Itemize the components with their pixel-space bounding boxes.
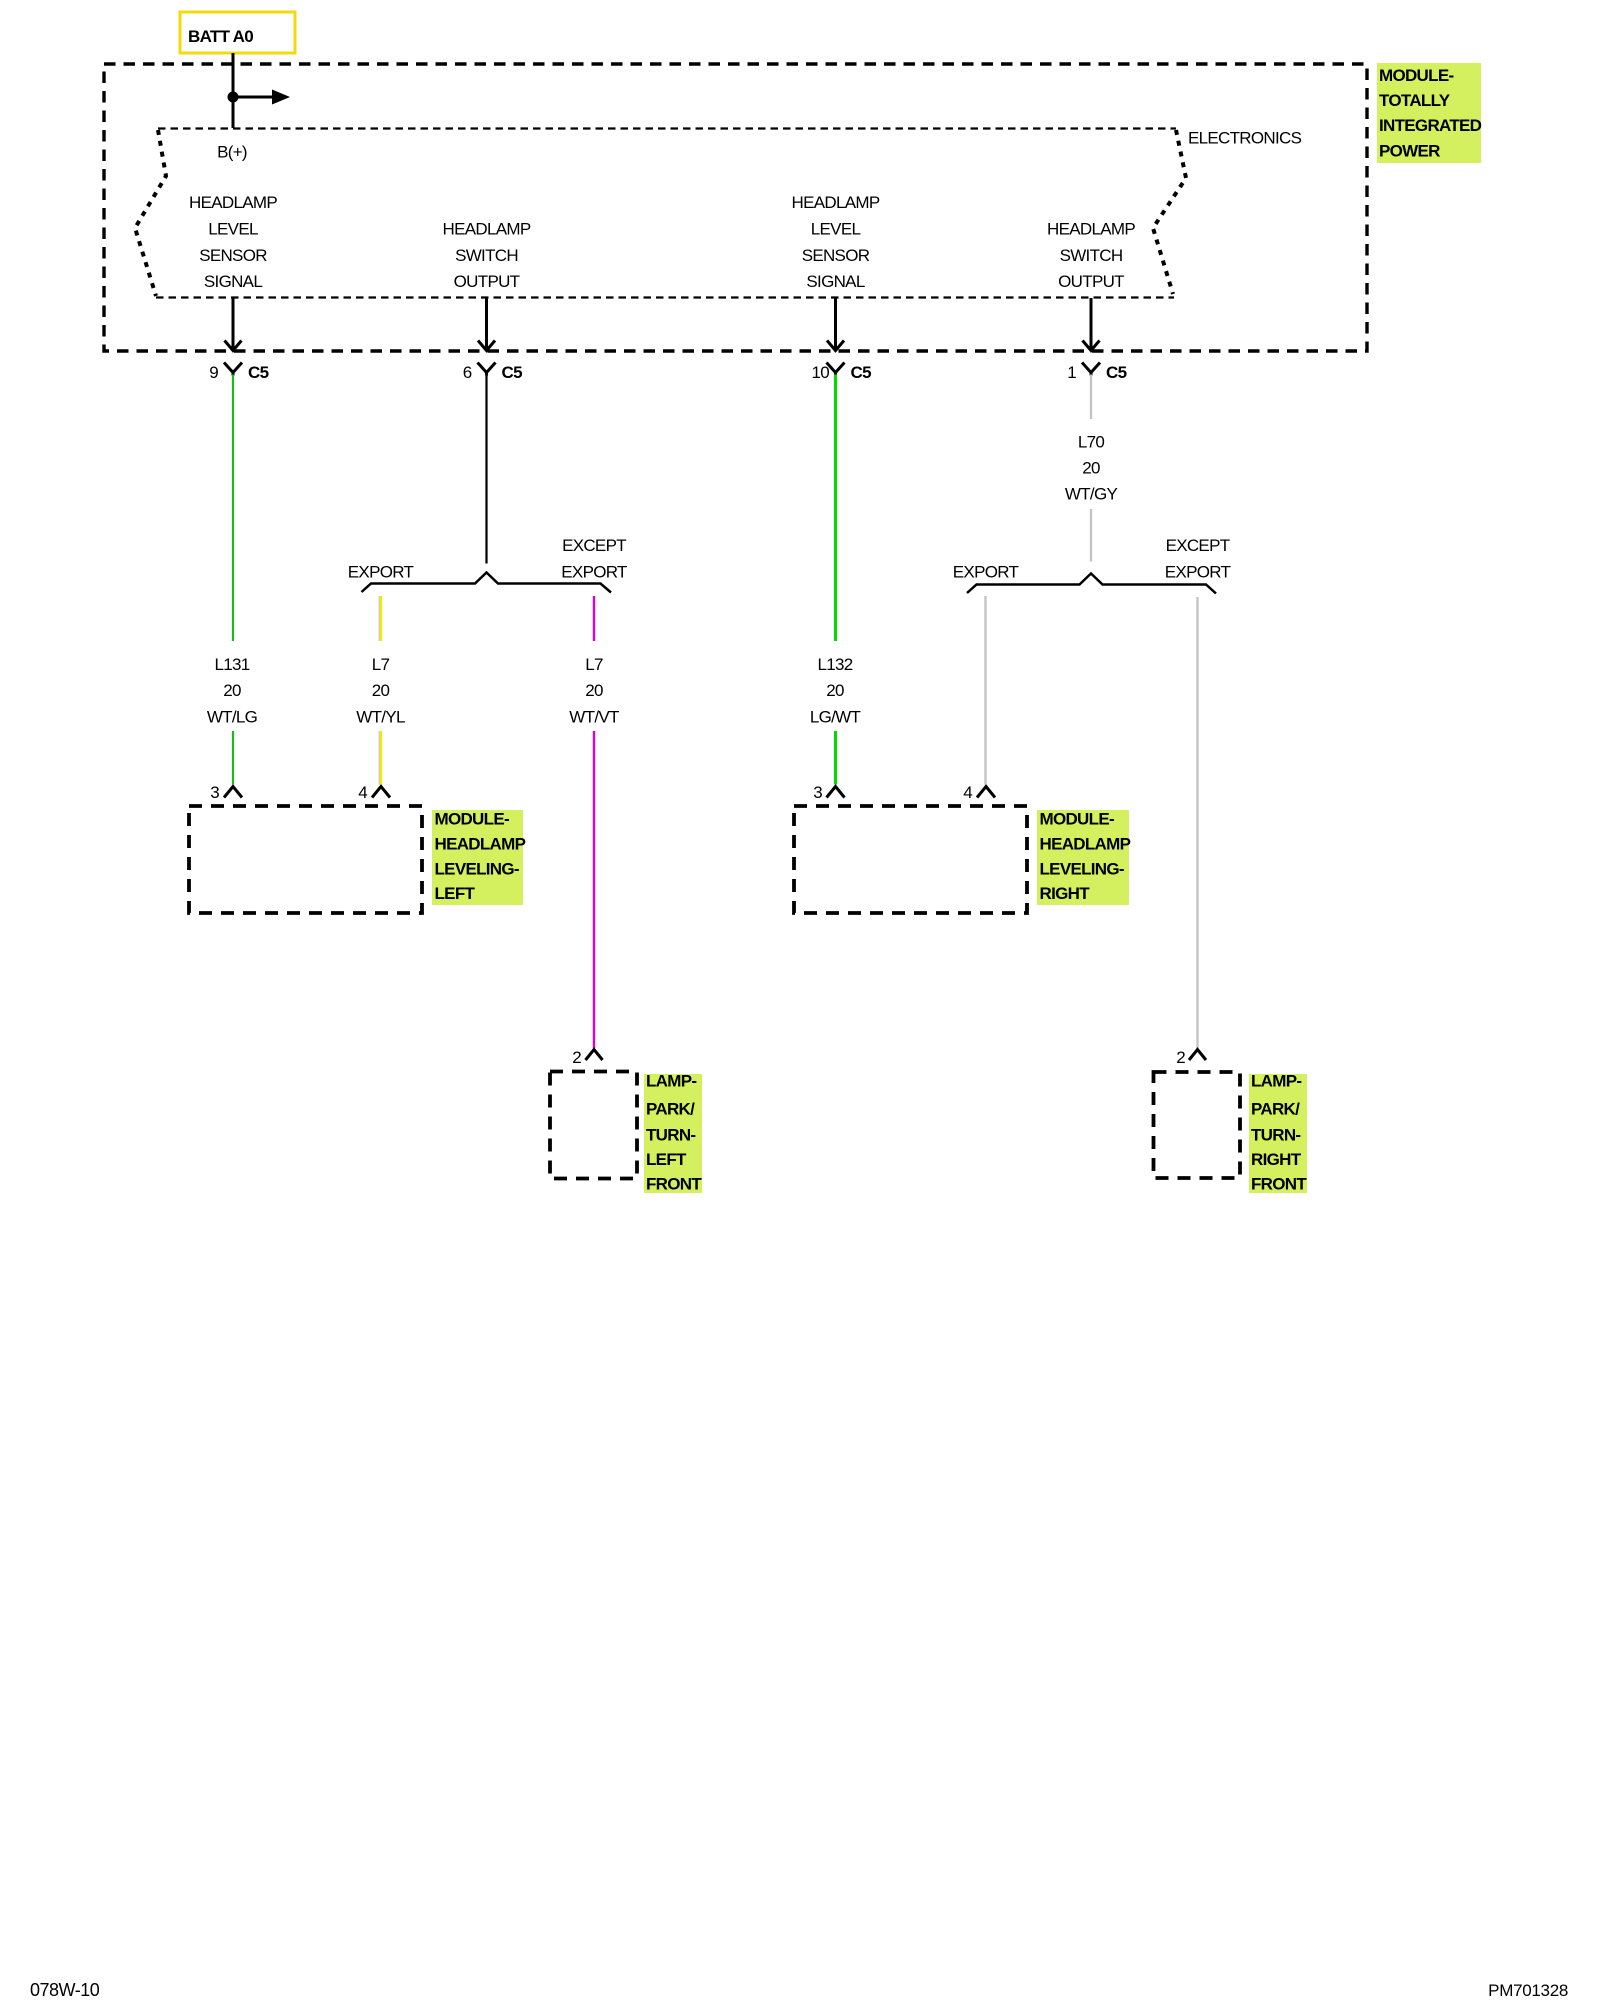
svg-text:HEADLAMP: HEADLAMP <box>435 835 526 854</box>
wire L7 20 WT/VT (violet, lower segment to lamp) <box>593 731 595 1048</box>
svg-text:WT/YL: WT/YL <box>356 708 405 727</box>
svg-text:TOTALLY: TOTALLY <box>1379 91 1451 110</box>
module box MODULE-HEADLAMP LEVELING-LEFT <box>189 806 422 913</box>
svg-text:OUTPUT: OUTPUT <box>1058 272 1124 291</box>
svg-text:TURN-: TURN- <box>646 1126 695 1145</box>
svg-text:LEFT: LEFT <box>646 1150 687 1169</box>
output arrow pin 1 <box>1083 298 1100 351</box>
connector pin 1 C5 <box>1067 363 1126 383</box>
pin label HEADLAMP SWITCH OUTPUT (left) <box>443 220 531 292</box>
label LAMP-PARK/TURN-LEFT FRONT <box>644 1072 702 1194</box>
svg-text:L70: L70 <box>1078 433 1105 452</box>
label MODULE-HEADLAMP LEVELING-RIGHT <box>1037 810 1131 906</box>
svg-text:2: 2 <box>1176 1048 1185 1067</box>
svg-text:TURN-: TURN- <box>1251 1126 1300 1145</box>
svg-text:EXCEPT: EXCEPT <box>1166 536 1230 555</box>
wire L7 20 WT/YL (yellow w/ gray tracer, upper segment) <box>379 596 381 641</box>
wire export branch right (gray) to module pin 4 <box>984 596 986 785</box>
connector pin 6 C5 <box>463 363 522 383</box>
svg-text:PARK/: PARK/ <box>646 1100 695 1119</box>
inner dashed box ELECTRONICS: top edge <box>158 127 1176 129</box>
module box MODULE-TOTALLY INTEGRATED POWER (outer dashed) <box>104 64 1367 351</box>
wire L7 20 WT/VT (violet, upper segment) <box>593 596 595 641</box>
svg-text:WT/GY: WT/GY <box>1065 485 1118 504</box>
svg-text:MODULE-: MODULE- <box>1379 66 1453 85</box>
lamp box LAMP-PARK/TURN-LEFT FRONT <box>550 1072 637 1179</box>
connector pin 9 C5 <box>209 363 268 383</box>
svg-text:078W-10: 078W-10 <box>30 1980 100 2000</box>
wire from BATT A0 to B(+) <box>232 53 235 128</box>
svg-text:SWITCH: SWITCH <box>1060 246 1123 265</box>
connector pin 4 (right module) <box>963 783 995 802</box>
svg-text:20: 20 <box>1082 459 1100 478</box>
svg-text:FRONT: FRONT <box>1251 1175 1307 1194</box>
label EXCEPT EXPORT (left bracket) <box>561 536 627 582</box>
svg-text:4: 4 <box>963 783 972 802</box>
output arrow pin 6 <box>478 298 495 351</box>
svg-text:SIGNAL: SIGNAL <box>806 272 864 291</box>
wire except-export branch right (gray) to lamp pin 2 <box>1196 597 1198 1048</box>
wire label L70 20 WT/GY <box>1065 433 1118 504</box>
svg-text:EXCEPT: EXCEPT <box>562 536 626 555</box>
inner dashed box ELECTRONICS: right zigzag edge <box>1153 130 1186 294</box>
svg-text:BATT A0: BATT A0 <box>188 27 253 46</box>
svg-text:C5: C5 <box>502 363 523 382</box>
svg-text:L7: L7 <box>372 655 390 674</box>
wire label L7 20 WT/VT <box>569 655 619 727</box>
svg-text:INTEGRATED: INTEGRATED <box>1379 116 1482 135</box>
svg-text:RIGHT: RIGHT <box>1040 884 1091 903</box>
wire L132 20 LG/WT (green, upper segment) <box>834 375 837 642</box>
svg-text:20: 20 <box>826 681 844 700</box>
lamp box LAMP-PARK/TURN-RIGHT FRONT <box>1154 1072 1241 1178</box>
svg-text:ELECTRONICS: ELECTRONICS <box>1188 129 1302 148</box>
svg-text:20: 20 <box>372 681 390 700</box>
pin label HEADLAMP LEVEL SENSOR SIGNAL (right) <box>792 193 880 291</box>
svg-text:9: 9 <box>209 363 218 382</box>
svg-text:LEVEL: LEVEL <box>208 220 258 239</box>
svg-text:B(+): B(+) <box>217 143 247 162</box>
svg-text:L131: L131 <box>214 655 249 674</box>
svg-text:SIGNAL: SIGNAL <box>204 272 262 291</box>
svg-text:6: 6 <box>463 363 472 382</box>
svg-text:LG/WT: LG/WT <box>810 708 861 727</box>
output arrow pin 10 <box>827 298 844 351</box>
connector pin 2 (right lamp) <box>1176 1048 1206 1067</box>
wire label L7 20 WT/YL <box>356 655 405 727</box>
svg-text:C5: C5 <box>1106 363 1127 382</box>
svg-text:HEADLAMP: HEADLAMP <box>1047 220 1135 239</box>
wire label L131 20 WT/LG <box>207 655 257 727</box>
svg-text:HEADLAMP: HEADLAMP <box>443 220 531 239</box>
svg-text:MODULE-: MODULE- <box>1040 810 1114 829</box>
svg-text:MODULE-: MODULE- <box>435 810 509 829</box>
label MODULE-HEADLAMP LEVELING-LEFT <box>432 810 526 906</box>
wire from pin 6 (black) down to option bracket <box>485 375 487 564</box>
connector pin 3 (left module) <box>210 783 242 802</box>
svg-text:2: 2 <box>572 1048 581 1067</box>
inner dashed box ELECTRONICS: bottom edge <box>156 296 1174 298</box>
svg-text:LAMP-: LAMP- <box>646 1072 696 1091</box>
svg-text:1: 1 <box>1067 363 1076 382</box>
wire L132 20 LG/WT (green, lower segment) <box>834 731 837 785</box>
svg-text:EXPORT: EXPORT <box>953 563 1019 582</box>
svg-text:LAMP-: LAMP- <box>1251 1072 1301 1091</box>
option split bracket (right, EXPORT / EXCEPT EXPORT) <box>967 574 1216 594</box>
svg-text:LEVELING-: LEVELING- <box>435 860 519 879</box>
svg-text:PARK/: PARK/ <box>1251 1100 1300 1119</box>
connector pin 4 (left module) <box>358 783 390 802</box>
svg-text:C5: C5 <box>248 363 269 382</box>
wire L131 20 WT/LG (green, upper segment) <box>232 375 234 642</box>
wire L7 20 WT/YL (yellow, lower segment) <box>379 731 381 785</box>
svg-text:HEADLAMP: HEADLAMP <box>189 193 277 212</box>
svg-text:WT/VT: WT/VT <box>569 708 619 727</box>
pin label HEADLAMP SWITCH OUTPUT (right) <box>1047 220 1135 292</box>
connector pin 10 C5 <box>811 363 871 383</box>
junction dot <box>228 92 239 103</box>
label LAMP-PARK/TURN-RIGHT FRONT <box>1249 1072 1307 1194</box>
svg-text:C5: C5 <box>851 363 872 382</box>
svg-text:L132: L132 <box>817 655 852 674</box>
svg-text:FRONT: FRONT <box>646 1175 702 1194</box>
connector pin 2 (left lamp) <box>572 1048 602 1067</box>
svg-text:RIGHT: RIGHT <box>1251 1150 1302 1169</box>
svg-text:LEVELING-: LEVELING- <box>1040 860 1124 879</box>
svg-text:L7: L7 <box>585 655 603 674</box>
svg-text:20: 20 <box>223 681 241 700</box>
svg-text:WT/LG: WT/LG <box>207 708 257 727</box>
svg-text:HEADLAMP: HEADLAMP <box>1040 835 1131 854</box>
svg-text:POWER: POWER <box>1379 142 1440 161</box>
label MODULE-TOTALLY INTEGRATED POWER <box>1377 63 1482 163</box>
inner dashed box ELECTRONICS: left zigzag edge <box>135 130 166 296</box>
wire L70 20 WT/GY (gray, lower segment to bracket) <box>1090 509 1092 562</box>
svg-text:LEVEL: LEVEL <box>811 220 861 239</box>
svg-text:SENSOR: SENSOR <box>199 246 267 265</box>
battery feed box BATT A0 <box>180 12 295 53</box>
svg-text:OUTPUT: OUTPUT <box>454 272 520 291</box>
svg-text:10: 10 <box>811 363 829 382</box>
wire label L132 20 LG/WT <box>810 655 861 727</box>
svg-text:PM701328: PM701328 <box>1488 1981 1568 2000</box>
wire L70 20 WT/GY (gray, upper segment) <box>1090 375 1092 420</box>
arrow B(+) feed to right <box>233 90 290 105</box>
svg-text:20: 20 <box>585 681 603 700</box>
option split bracket (left, EXPORT / EXCEPT EXPORT) <box>362 573 612 593</box>
svg-text:EXPORT: EXPORT <box>348 563 414 582</box>
output arrow pin 9 <box>225 298 242 351</box>
connector pin 3 (right module) <box>813 783 844 802</box>
wire L131 20 WT/LG (green, lower segment) <box>232 731 234 785</box>
svg-text:4: 4 <box>358 783 367 802</box>
svg-text:3: 3 <box>813 783 822 802</box>
svg-text:LEFT: LEFT <box>435 884 476 903</box>
svg-text:HEADLAMP: HEADLAMP <box>792 193 880 212</box>
label EXCEPT EXPORT (right bracket) <box>1165 536 1231 582</box>
svg-text:EXPORT: EXPORT <box>1165 563 1231 582</box>
svg-text:3: 3 <box>210 783 219 802</box>
svg-text:SWITCH: SWITCH <box>455 246 518 265</box>
svg-text:SENSOR: SENSOR <box>802 246 870 265</box>
module box MODULE-HEADLAMP LEVELING-RIGHT <box>794 806 1027 913</box>
svg-text:EXPORT: EXPORT <box>561 563 627 582</box>
pin label HEADLAMP LEVEL SENSOR SIGNAL (left) <box>189 193 277 291</box>
